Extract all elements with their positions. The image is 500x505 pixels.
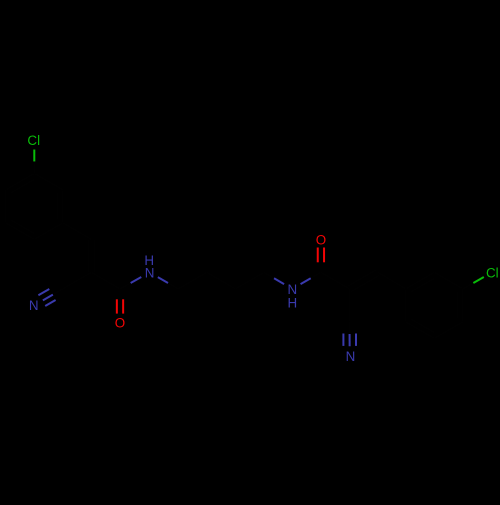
triple bond C#N left lower line (blue) [45,300,55,306]
wire chain C-D [235,272,264,289]
wire chain B-C [207,272,236,289]
wire right ring bond 6 [405,289,407,322]
svg-text:O: O [316,232,326,247]
wire right ring inner line 1 [411,278,434,292]
double bond C=O right line2 (red) [323,248,325,263]
wire right ring bond 4 [434,322,463,339]
wire alpha-nitrileC bond left [63,272,92,288]
svg-text:Cl: Cl [27,133,40,148]
wire left ring inner line 1 [57,193,59,220]
bond Cl-ring half right (green) [473,277,483,283]
bond N-CH2 half right (blue) [274,278,284,284]
wire left ring inner line 5 [11,220,34,234]
wire vinyl C=C right line2 [351,275,380,292]
bond N-C(=O) half right (blue) [301,278,311,284]
wire Cl-ring dark half left [33,161,35,173]
wire N-CH2 dark half right [264,272,274,278]
triple bond C#N right middle line (blue) [349,334,351,346]
wire right ring inner line 3 [457,292,459,319]
wire ring-CH bond left [63,223,92,240]
triple bond C#N left middle line (blue) [43,295,53,301]
wire right ring bond 5 [406,322,435,339]
triple bond C#N left upper line (blue) [38,289,49,295]
wire Cl-ring dark half right [463,283,473,289]
wire N-CH2 dark half left [168,283,178,289]
wire CH-ring bond right [378,272,406,289]
wire C(=O)-N dark half left [120,283,131,289]
svg-text:O: O [115,315,125,330]
wire nitrileC half right [349,322,351,334]
wire nitrileC half left [53,289,63,295]
wire vinyl C=C right line1 [348,270,377,287]
wire left ring bond 4 [5,190,7,223]
bond N-CH2 half left (blue) [158,277,168,283]
wire chain A-B [178,272,207,289]
wire alpha-nitrileC bond right [349,289,351,322]
svg-text:N: N [29,298,39,313]
svg-text:N: N [145,265,155,280]
wire left ring bond 2 [34,173,63,190]
wire vinyl C=C left line2 [87,239,89,272]
triple bond C#N right left line (blue) [342,334,344,346]
wire alpha-carbonyl bond right [321,272,350,289]
wire left ring inner line 3 [11,179,34,193]
wire left ring bond 3 [6,173,35,190]
double bond C=O left line1 (red) [116,299,118,313]
bond Cl-ring half left (green) [33,150,35,162]
wire left ring bond 1 [62,190,64,223]
wire left ring bond 5 [6,223,35,240]
double bond C=O left line2 (red) [122,299,124,313]
svg-text:N: N [287,282,297,297]
wire left ring bond 6 [34,223,63,240]
svg-text:N: N [346,349,356,364]
wire right ring bond 2 [434,272,463,289]
svg-text:H: H [287,296,297,311]
wire vinyl C=C left line1 [94,239,96,272]
wire alpha-carbonyl bond left [91,272,120,289]
bond N-C(=O) half left (blue) [131,277,142,283]
wire right ring bond 1 [406,272,435,289]
svg-text:Cl: Cl [486,265,499,280]
wire C(=O)-N dark half right [311,272,321,278]
double bond C=O right line1 (red) [317,248,319,263]
wire right ring bond 3 [462,289,464,322]
triple bond C#N right right line (blue) [355,334,357,346]
wire right ring inner line 5 [411,319,434,333]
